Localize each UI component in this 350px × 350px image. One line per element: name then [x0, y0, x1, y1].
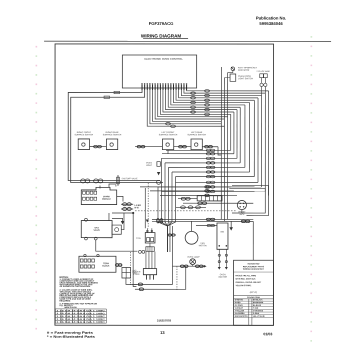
svg-text:OVEN LAMP: OVEN LAMP [187, 256, 200, 259]
wire bottom run 2 [135, 266, 186, 289]
electronic oven control U1 [122, 55, 196, 88]
svg-text:WITH RED, GRAY BLK: WITH RED, GRAY BLK [235, 278, 256, 281]
TOD thermostat [145, 228, 155, 251]
connector bottom run 1 [138, 283, 142, 286]
svg-text:SURFACE SWITCH: SURFACE SWITCH [103, 133, 122, 136]
svg-text:WIRING DIAGRAM: WIRING DIAGRAM [141, 33, 181, 38]
svg-text:SURFACE SWITCH: SURFACE SWITCH [187, 133, 206, 136]
svg-text:JACK: JACK [239, 213, 245, 216]
pressure regulator [122, 267, 137, 278]
connector right of TB1 [115, 264, 122, 267]
svg-text:RACES ARE ALL WIRE: RACES ARE ALL WIRE [235, 274, 256, 277]
svg-text:BLOCK: BLOCK [102, 265, 110, 268]
connector on funnel line 1 [157, 219, 160, 223]
svg-text:1 16 GA 14 GA 6 GA 1 105C: 1 16 GA 14 GA 6 GA 1 105C [56, 309, 106, 312]
surface burner switch S4 [191, 139, 202, 150]
wire motor to ignitor [196, 224, 217, 226]
oven lamp DS1 [187, 256, 200, 267]
svg-text:13: 13 [160, 330, 165, 335]
wire anti-tip drop [228, 71, 233, 73]
wire left bus 1 [68, 90, 160, 181]
wire module top stub [99, 185, 101, 188]
wire to oven burner [108, 213, 110, 221]
notes block [59, 276, 98, 307]
svg-text:SURFACE SWITCH: SURFACE SWITCH [75, 133, 94, 136]
svg-text:(GCYC): (GCYC) [250, 291, 258, 294]
wire spark module out [117, 196, 123, 201]
header rule [44, 40, 331, 42]
svg-text:YELLOW STRIPE.: YELLOW STRIPE. [235, 284, 251, 287]
connector cluster on bottom bus 1 [81, 179, 90, 183]
wire gauge tag 2 [104, 96, 110, 98]
svg-text:IGNITOR: IGNITOR [218, 276, 227, 279]
svg-text:1 16 GA 14 GA 6 GA 1 105C: 1 16 GA 14 GA 6 GA 1 105C [56, 321, 106, 324]
wire stub with down arrow [112, 218, 123, 221]
svg-text:WIRING DIAGRAM KEY: WIRING DIAGRAM KEY [243, 268, 265, 271]
decorative margin dots [35, 36, 312, 342]
svg-text:VALVE: VALVE [93, 229, 100, 232]
svg-text:SUGGESTED: SUGGESTED [248, 262, 261, 265]
U1 pin numbers [141, 83, 187, 84]
wire left bus 2 [71, 90, 163, 183]
oven ignitor [217, 223, 228, 270]
connector left of lamp [178, 265, 190, 267]
broil element R1 [197, 196, 222, 201]
surface burner switch S1 [78, 139, 89, 150]
svg-text:OVERALL, RACES ARE NOT: OVERALL, RACES ARE NOT [235, 281, 262, 284]
top right lamp blocks [260, 74, 268, 96]
terminal block TB1 [79, 254, 116, 272]
svg-text:5995384046: 5995384046 [259, 21, 283, 26]
connector on funnel line 2 [160, 219, 163, 223]
power cord plug P1 [143, 252, 156, 280]
wire top fan (staircase from U1 pins to right columns) [147, 90, 268, 128]
svg-text:SURFACE SWITCH: SURFACE SWITCH [159, 133, 178, 136]
svg-text:MOTOR: MOTOR [199, 244, 207, 247]
wire lamp to right terminal [203, 265, 204, 267]
spark module A1 [81, 187, 116, 204]
wire right columns (nested loops) [221, 67, 268, 221]
connector left of S3 [135, 145, 162, 147]
svg-text:MODULE: MODULE [102, 198, 111, 201]
shutoff plug on bottom bus [117, 175, 139, 186]
U1 pin comb [142, 84, 187, 90]
svg-text:LIGHT: LIGHT [146, 164, 153, 167]
wire size table [55, 306, 106, 324]
wiring diagram title underline [143, 38, 188, 40]
svg-text:AS SHOWN ON THIS DIAGRAM.: AS SHOWN ON THIS DIAGRAM. [59, 285, 90, 288]
connector left of broil element [178, 197, 197, 200]
svg-text:316257078: 316257078 [157, 318, 171, 322]
connector row mid [176, 206, 206, 209]
wire burner right drop [121, 213, 124, 230]
wire loop around probe inner [229, 188, 265, 213]
surface burner switch S2 [106, 139, 117, 150]
wire valve to cord junction [96, 240, 138, 251]
connector pair A [121, 203, 133, 206]
connector on double line B [241, 220, 250, 222]
svg-text:* = Non-Illustrated Parts: * = Non-Illustrated Parts [47, 335, 95, 339]
svg-text:SHUTOFF VALVE: SHUTOFF VALVE [121, 177, 138, 180]
connector on funnel mid [167, 234, 176, 236]
wire funnel bundle [158, 158, 176, 252]
dashed chassis line [135, 210, 236, 212]
oven burner assembly [81, 218, 112, 240]
connector on double line A [206, 218, 215, 220]
svg-text:FGF379ACG: FGF379ACG [149, 21, 174, 26]
connector cluster on bottom bus 2 [94, 179, 103, 183]
wire bottom run 1 [132, 226, 173, 284]
svg-text:LIGHT SWITCH: LIGHT SWITCH [238, 77, 253, 80]
oven door light switch [230, 74, 253, 81]
svg-text:* TO HOT WIRE: * TO HOT WIRE [256, 70, 271, 73]
wire lamp dashed drop [176, 266, 178, 291]
connector right of lamp [190, 265, 204, 267]
diagram border frame [55, 44, 274, 325]
svg-text:IGN: IGN [220, 231, 224, 234]
wire gauge tag 1 [114, 91, 120, 93]
T junction circles [139, 250, 145, 253]
wire mid horizontals [140, 186, 237, 197]
svg-text:TOD: TOD [136, 237, 141, 240]
oven light switch branch [157, 162, 161, 185]
wire dashed drop [129, 252, 131, 285]
connector between S3 and S4 [174, 145, 191, 147]
wire from S4 connector down [218, 147, 221, 155]
oven burner side block [112, 225, 121, 234]
svg-text:Publication No.: Publication No. [256, 16, 286, 21]
svg-text:WIRE GAUGE: WIRE GAUGE [64, 306, 77, 309]
connector right of S4 [202, 146, 218, 148]
svg-text:REQUIRED.: REQUIRED. [59, 299, 71, 302]
svg-text:ELECTRONIC OVEN CONTROL: ELECTRONIC OVEN CONTROL [144, 58, 183, 61]
wire double horizontal [152, 218, 253, 220]
connector pair B [121, 207, 133, 210]
connector bottom run 2 [139, 288, 143, 291]
wire box3 stub [167, 150, 169, 154]
oven probe jack J1 [237, 200, 246, 216]
ground arrow [229, 221, 233, 230]
wire probe stub [241, 210, 243, 213]
arrow on feeder [146, 219, 149, 222]
wire lamp left [172, 265, 177, 267]
connector between S1 and S2 [90, 145, 107, 147]
svg-text:1 16 GA 14 GA 6 GA 1 105C: 1 16 GA 14 GA 6 GA 1 105C [56, 315, 106, 318]
wire door switch link [224, 77, 230, 79]
surface burner switch S3 [162, 139, 173, 150]
wire spark chain down [133, 213, 136, 287]
wire box4 stub [196, 149, 198, 152]
wire double line drop [252, 221, 254, 260]
svg-text:1 16 GA 14 GA 6 GA 1 105C: 1 16 GA 14 GA 6 GA 1 105C [56, 318, 106, 321]
wire spark module top [109, 184, 116, 187]
anti-tip bracket indicator [231, 66, 258, 71]
svg-text:1 16 GA 14 GA 6 GA 1 105C: 1 16 GA 14 GA 6 GA 1 105C [56, 312, 106, 315]
wire regulator drop [126, 278, 137, 284]
wire junction row [112, 212, 133, 214]
wire bottom fan with connectors [158, 149, 265, 193]
svg-text:INDICATOR: INDICATOR [238, 69, 250, 72]
convection motor M1 [185, 221, 207, 247]
wire under element [183, 202, 253, 205]
wire loop around probe outer [232, 185, 269, 215]
svg-text:CORD: CORD [133, 273, 140, 276]
legend box [234, 260, 274, 325]
svg-text:01/03: 01/03 [263, 332, 272, 336]
wire TOD feeders [144, 188, 146, 228]
